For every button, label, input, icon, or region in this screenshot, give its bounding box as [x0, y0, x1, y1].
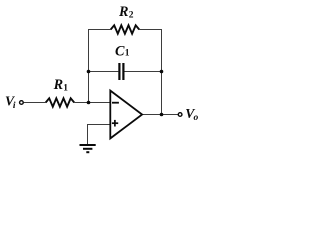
capacitor C1	[118, 63, 120, 80]
svg-text:C: C	[115, 43, 125, 59]
op-amp noninverting input plus sign	[112, 122, 118, 124]
node A junction dot (inverting input node)	[87, 101, 91, 105]
svg-text:1: 1	[125, 49, 130, 59]
junction dot C1 right	[160, 70, 164, 74]
resistor R1	[46, 98, 74, 106]
svg-text:o: o	[194, 113, 199, 123]
wire C1 right lead	[124, 71, 162, 73]
svg-text:2: 2	[129, 11, 134, 21]
svg-text:R: R	[118, 4, 128, 20]
input terminal Vi	[20, 101, 24, 105]
resistor R2	[111, 25, 140, 33]
wire Vi terminal to R1	[24, 102, 46, 104]
ground	[80, 145, 96, 152]
op-amp U1	[110, 91, 142, 139]
junction dot output node	[160, 113, 164, 117]
junction dot C1 left	[87, 70, 91, 74]
wire op-amp output to Vo terminal	[142, 114, 178, 116]
wire C1 left lead	[88, 71, 118, 73]
svg-text:R: R	[53, 77, 63, 93]
wire feedback right vertical (loop down to output)	[161, 29, 163, 115]
svg-text:1: 1	[63, 84, 68, 94]
wire op-amp noninverting input to ground corner	[88, 125, 111, 145]
svg-text:i: i	[13, 101, 16, 111]
wire top loop left segment	[88, 29, 111, 31]
wire feedback left vertical (node A up to R2/C1 loop)	[88, 29, 90, 103]
op-amp inverting input minus sign	[112, 102, 119, 104]
wire top loop right segment	[139, 29, 162, 31]
output terminal Vo	[178, 113, 182, 117]
wire R1 to node A	[74, 102, 110, 104]
